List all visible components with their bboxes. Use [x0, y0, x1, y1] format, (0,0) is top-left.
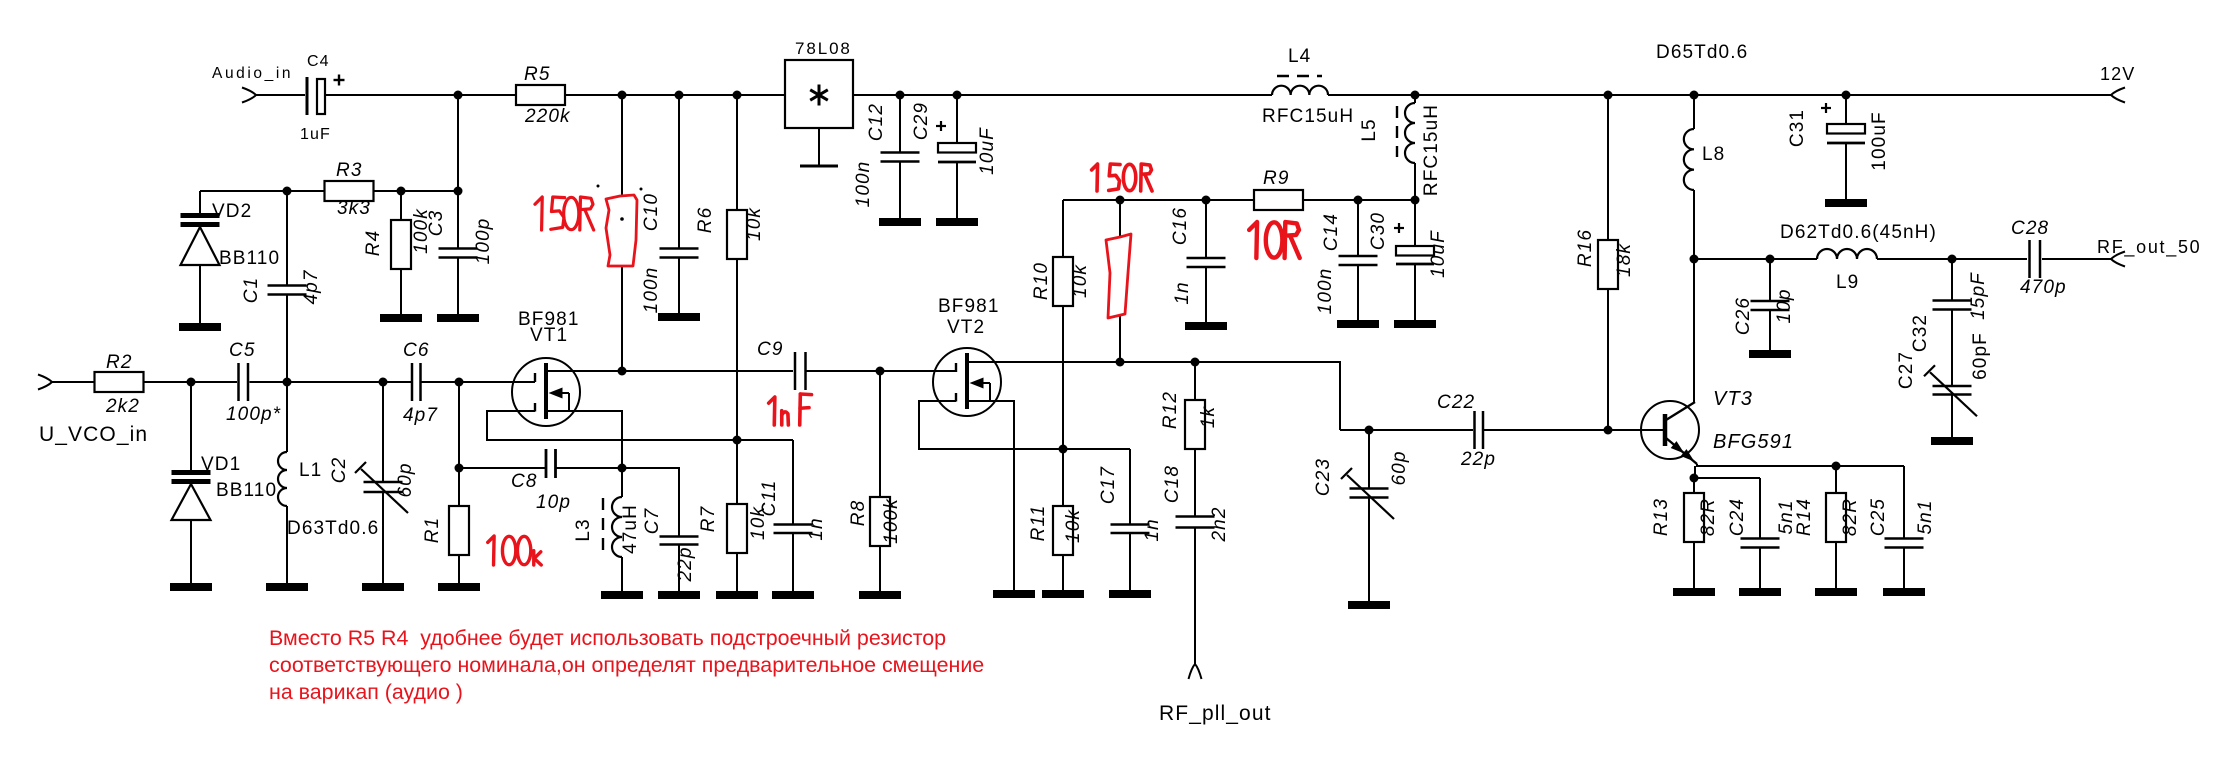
varactor diode VD2 BB110 [199, 191, 201, 213]
resistor R2 2k2 [95, 372, 144, 392]
red note 150R with drawn resistor near R10 [1092, 164, 1098, 191]
black speck inside red overlay 1 [620, 217, 624, 221]
svg-text:RFC15uH: RFC15uH [1262, 106, 1354, 127]
wire C9 to VT2 gate1 [806, 370, 957, 372]
svg-text:C18: C18 [1162, 465, 1183, 503]
svg-text:100uF: 100uF [1869, 111, 1890, 170]
svg-text:L3: L3 [573, 518, 594, 541]
transistor VT3 BFG591 [1641, 401, 1699, 459]
svg-text:100p: 100p [473, 218, 494, 265]
svg-text:BFG591: BFG591 [1713, 431, 1794, 453]
red drawn resistor overlay near R10 [1106, 234, 1131, 318]
junction VT2 drain line / 150R column [1116, 358, 1125, 367]
svg-text:L1: L1 [299, 460, 322, 481]
svg-text:1n: 1n [1142, 518, 1163, 541]
svg-text:82R: 82R [1698, 498, 1719, 536]
svg-text:C28: C28 [2011, 218, 2049, 239]
junction C8 line / L3 source [618, 464, 627, 473]
svg-text:Audio_in: Audio_in [212, 65, 293, 82]
resistor R16 18k [1607, 95, 1609, 240]
resistor R4 100k [400, 191, 402, 220]
ground C29 [936, 218, 978, 226]
trimmer capacitor C2 60p [382, 382, 384, 482]
svg-text:R8: R8 [848, 500, 869, 527]
svg-text:18k: 18k [1614, 243, 1635, 277]
inductor L8 [1693, 95, 1695, 129]
ground C11 [772, 591, 814, 599]
inductor L9 D62Td0.6(45nH) [1817, 249, 1877, 259]
svg-text:VD2: VD2 [212, 201, 252, 222]
junction C22 line / C23 [1365, 426, 1374, 435]
capacitor C14 100n [1357, 200, 1359, 256]
svg-text:1k: 1k [1198, 405, 1219, 428]
varactor diode VD1 BB110 [190, 382, 192, 470]
capacitor C18 2n2 [1194, 449, 1196, 517]
junction top rail / R16 [1604, 91, 1613, 100]
Audio_in port arrow [242, 88, 256, 103]
capacitor C9 coupling [794, 352, 797, 390]
svg-text:VT1: VT1 [530, 325, 568, 346]
svg-text:C12: C12 [866, 103, 887, 141]
junction R3 line / R4 [397, 187, 406, 196]
svg-text:1n: 1n [806, 517, 827, 540]
svg-text:1uF: 1uF [300, 126, 331, 143]
svg-text:D65Td0.6: D65Td0.6 [1656, 42, 1748, 63]
VT3 emitter with double arrows [1666, 438, 1697, 464]
svg-text:C6: C6 [403, 340, 430, 361]
asterisk mark in 78L08 [818, 85, 821, 106]
VT1 gate1 lead wire [459, 381, 535, 383]
red note 1nF under C9 [769, 397, 775, 425]
svg-text:L8: L8 [1702, 144, 1725, 165]
junction VCO line / L1 [283, 378, 292, 387]
wire R3 bias line [200, 190, 458, 192]
junction emitter line / R14 [1832, 462, 1841, 471]
svg-text:100p*: 100p* [226, 404, 281, 425]
voltage regulator U1 78L08 [785, 60, 853, 128]
trimmer capacitor C23 60p [1368, 430, 1370, 489]
svg-text:C29: C29 [911, 102, 932, 140]
junction top rail / C29 [953, 91, 962, 100]
junction R9 line / C30 L5 [1411, 196, 1420, 205]
junction emitter line / R13 [1690, 474, 1699, 483]
junction gate2 line / R6 R7 [733, 436, 742, 445]
svg-text:VD1: VD1 [201, 454, 241, 475]
svg-text:на варикап (аудио ): на варикап (аудио ) [269, 680, 463, 704]
resistor R13 82R [1693, 478, 1695, 493]
svg-text:220k: 220k [524, 106, 571, 127]
VT2 source lead to ground [967, 401, 1014, 590]
svg-text:100n: 100n [641, 267, 662, 314]
ground C25 [1883, 588, 1925, 596]
U_VCO_in port arrow [38, 375, 52, 390]
junction top rail / R6 [733, 91, 742, 100]
capacitor C3 100p [457, 95, 459, 249]
svg-text:4p7: 4p7 [301, 269, 322, 304]
ground C26 [1749, 350, 1791, 358]
svg-text:2k2: 2k2 [105, 396, 140, 417]
red drawn resistor overlay near VT1 drain [606, 195, 637, 266]
wire from 150R node down to VT2 drain line [1119, 200, 1121, 362]
junction top rail / L8 [1690, 91, 1699, 100]
svg-text:C22: C22 [1437, 392, 1475, 413]
VT1 drain lead wire to C9 [546, 370, 793, 372]
capacitor C7 22p [622, 468, 679, 537]
capacitor C1 4p7 [286, 191, 288, 286]
junction top rail / C31 [1842, 91, 1851, 100]
svg-text:C25: C25 [1868, 498, 1889, 536]
svg-text:D62Td0.6(45nH): D62Td0.6(45nH) [1780, 222, 1937, 243]
junction R9 line / C14 [1354, 196, 1363, 205]
svg-text:R11: R11 [1028, 505, 1049, 542]
ground stub of 78L08 [818, 128, 820, 166]
svg-text:BB110: BB110 [216, 480, 277, 501]
svg-text:C7: C7 [642, 507, 663, 534]
VT2 gate2 U wire [919, 401, 1130, 449]
svg-text:82R: 82R [1840, 498, 1861, 536]
svg-text:D63Td0.6: D63Td0.6 [287, 518, 379, 539]
junction output row / C32 [1948, 255, 1957, 264]
svg-text:L9: L9 [1836, 272, 1859, 293]
ground R14 [1815, 588, 1857, 596]
ground C2 [362, 583, 404, 591]
svg-text:R10: R10 [1031, 262, 1052, 300]
capacitor C22 22p [1473, 411, 1476, 449]
svg-text:C2: C2 [329, 457, 350, 484]
dual-gate MOSFET VT1 BF981 [512, 358, 580, 426]
svg-text:100k: 100k [881, 498, 902, 544]
svg-text:10p: 10p [536, 492, 571, 513]
svg-text:60p: 60p [1389, 450, 1410, 485]
svg-text:22p: 22p [1460, 449, 1496, 470]
svg-text:L5: L5 [1359, 118, 1380, 141]
ground R11 [1042, 590, 1084, 598]
svg-text:78L08: 78L08 [795, 39, 852, 58]
svg-text:10p: 10p [1774, 288, 1795, 323]
red note 100k value for R1 [488, 536, 494, 565]
svg-text:C26: C26 [1733, 297, 1754, 335]
svg-text:R16: R16 [1575, 229, 1596, 267]
junction top rail / C3 column [454, 91, 463, 100]
svg-text:C14: C14 [1321, 213, 1342, 251]
svg-text:C27: C27 [1896, 351, 1917, 389]
ground C16 [1185, 322, 1227, 330]
junction R9 line / C16 [1202, 196, 1211, 205]
svg-text:60pF: 60pF [1970, 332, 1991, 380]
junction output row / C26 [1766, 255, 1775, 264]
wire gate1 column down to C8 line [458, 382, 460, 468]
VT1 gate2 U wire to bias line [487, 411, 793, 440]
svg-text:C8: C8 [511, 471, 538, 492]
resistor R10 10k [1062, 200, 1064, 257]
capacitor C32 15pF [1951, 259, 1953, 301]
svg-text:R5: R5 [524, 64, 551, 85]
svg-text:22p: 22p [675, 546, 696, 582]
capacitor C24 5n1 [1759, 478, 1761, 539]
resistor R6 10k [736, 95, 738, 210]
junction gate1 line / R8 [876, 367, 885, 376]
ground C30 [1394, 320, 1436, 328]
VT1 source lead wire down to C8 node [546, 411, 622, 468]
inductor L5 RFC15uH [1414, 95, 1416, 103]
junction R3 line / C1 [283, 187, 292, 196]
ground R1 [438, 583, 480, 591]
svg-text:10k: 10k [1063, 509, 1084, 543]
wire C22 to VT3 base [1483, 429, 1663, 431]
red note 10R under R9 [1249, 222, 1257, 258]
svg-text:C5: C5 [229, 340, 256, 361]
svg-text:12V: 12V [2100, 64, 2135, 84]
junction R3 line / C3 [454, 187, 463, 196]
svg-text:L4: L4 [1288, 46, 1311, 67]
ground VD2 [179, 323, 221, 331]
svg-text:VT3: VT3 [1713, 388, 1753, 410]
svg-text:C16: C16 [1170, 207, 1191, 245]
ground R7 [716, 591, 758, 599]
svg-text:R9: R9 [1263, 168, 1290, 189]
VT3 emitter node wires [1697, 464, 1904, 466]
svg-text:60p: 60p [395, 462, 416, 497]
svg-text:R6: R6 [695, 207, 716, 234]
RF_pll_out port arrow [1189, 664, 1202, 679]
capacitor C28 470p [2028, 240, 2031, 278]
ground C7 [658, 591, 700, 599]
junction VCO line / R1 gate1 [455, 378, 464, 387]
svg-text:R13: R13 [1651, 498, 1672, 536]
svg-text:C24: C24 [1727, 498, 1748, 536]
svg-text:Вместо R5 R4 удобнее будет ис: Вместо R5 R4 удобнее будет использовать … [269, 626, 946, 650]
svg-text:C31: C31 [1787, 109, 1808, 147]
junction top rail / C10 [675, 91, 684, 100]
svg-text:соответствующего номинала,он о: соответствующего номинала,он определят п… [269, 653, 984, 677]
capacitor C10 100n [678, 95, 680, 249]
ground R4 [380, 314, 422, 322]
dual-gate MOSFET VT2 BF981 [933, 348, 1001, 416]
wire gate2 bias line R9 row [1063, 199, 1254, 201]
svg-text:C11: C11 [759, 480, 780, 517]
ground VT2 source [993, 590, 1035, 598]
wire VT2 drain to C22 row [1340, 429, 1473, 431]
svg-text:100n: 100n [1315, 268, 1336, 315]
svg-text:C10: C10 [641, 193, 662, 231]
capacitor C29 electrolytic 10uF [956, 95, 958, 143]
svg-text:RF_out_50: RF_out_50 [2097, 237, 2201, 258]
svg-text:R2: R2 [106, 352, 133, 373]
capacitor C11 1n [792, 440, 794, 525]
VT3 collector wire from L8 node [1693, 259, 1695, 402]
svg-text:C23: C23 [1313, 458, 1334, 496]
resistor R5 220k [516, 85, 565, 105]
junction R9 line / 150R column [1116, 196, 1125, 205]
svg-text:10k: 10k [1070, 264, 1091, 298]
resistor R14 82R [1835, 466, 1837, 493]
resistor R1 (100k) [458, 468, 460, 506]
resistor R3 3k3 [325, 181, 374, 201]
12V port arrow [2111, 88, 2125, 103]
junction top rail / VT1 drain column [618, 91, 627, 100]
RF_out_50 port arrow [2111, 252, 2125, 267]
capacitor C12 100n [899, 95, 901, 153]
svg-text:2n2: 2n2 [1209, 506, 1230, 542]
svg-text:1n: 1n [1172, 281, 1193, 304]
svg-text:C3: C3 [426, 210, 447, 237]
resistor R8 100k [879, 371, 881, 497]
ground C23 [1348, 601, 1390, 609]
capacitor C6 4p7 [411, 363, 414, 401]
red note 150R with drawn resistor near VT1 drain [535, 197, 542, 230]
ground C31 [1825, 199, 1867, 207]
svg-text:C17: C17 [1098, 466, 1119, 504]
capacitor C30 electrolytic 10uF [1414, 200, 1416, 246]
junction output row / L8 collector [1690, 255, 1699, 264]
resistor R11 10k [1062, 449, 1064, 506]
junction drain line / rail column [618, 367, 627, 376]
svg-text:RFC15uH: RFC15uH [1421, 104, 1442, 196]
resistor R9 [1254, 190, 1303, 210]
capacitor C31 electrolytic 100uF [1845, 95, 1847, 124]
capacitor C25 5n1 [1903, 466, 1905, 539]
ground VD1 [170, 583, 212, 591]
svg-text:R14: R14 [1794, 498, 1815, 536]
svg-text:5n1: 5n1 [1915, 499, 1936, 534]
ground C12 [879, 218, 921, 226]
ground C24 [1739, 588, 1781, 596]
ground L1 [266, 583, 308, 591]
svg-text:C4: C4 [307, 53, 330, 70]
capacitor C16 1n [1205, 200, 1207, 258]
junction C8 line / R1 [455, 464, 464, 473]
junction VT2 drain line / R12 [1191, 358, 1200, 367]
ground L3 [601, 591, 643, 599]
junction top rail / L5 [1411, 91, 1420, 100]
VT2 drain line wire [969, 362, 1340, 430]
svg-text:R12: R12 [1160, 391, 1181, 429]
svg-text:R1: R1 [422, 517, 443, 544]
junction top rail / C12 [896, 91, 905, 100]
inductor L4 RFC15uH [1272, 86, 1328, 95]
ground C14 [1337, 320, 1379, 328]
wire output matching row [1694, 258, 1817, 260]
svg-text:470p: 470p [2020, 277, 2067, 298]
svg-text:10uF: 10uF [977, 127, 998, 175]
resistor R12 1k [1194, 362, 1196, 400]
svg-text:BB110: BB110 [219, 248, 280, 269]
capacitor C26 10p [1769, 259, 1771, 301]
ground C27 [1931, 437, 1973, 445]
svg-text:R3: R3 [336, 160, 363, 181]
top power rail wire [256, 94, 305, 96]
capacitor C4 electrolytic 1uF [306, 77, 309, 115]
svg-text:47uH: 47uH [620, 504, 641, 554]
svg-text:100n: 100n [853, 161, 874, 208]
junction VCO line / C2 [379, 378, 388, 387]
junction VCO line / VD1 [187, 378, 196, 387]
svg-text:15pF: 15pF [1968, 272, 1989, 320]
ground R13 [1673, 588, 1715, 596]
svg-text:RF_pll_out: RF_pll_out [1159, 702, 1272, 725]
capacitor C17 1n [1129, 449, 1131, 525]
svg-text:R7: R7 [698, 505, 719, 532]
ground C10 [658, 313, 700, 321]
ground R8 [859, 591, 901, 599]
svg-text:U_VCO_in: U_VCO_in [39, 423, 148, 446]
svg-text:BF981: BF981 [938, 296, 999, 317]
capacitor C8 10p [459, 467, 546, 469]
wire drain column to rail [621, 95, 623, 371]
inductor L3 47uH [621, 468, 623, 497]
main VCO input line [52, 381, 95, 383]
trimmer capacitor C27 60pF [1933, 385, 1972, 388]
svg-text:C9: C9 [757, 339, 784, 360]
ground C3 [437, 314, 479, 322]
junction gate2 line / R10 R11 [1059, 445, 1068, 454]
svg-text:C1: C1 [241, 277, 262, 304]
svg-text:10uF: 10uF [1428, 230, 1449, 278]
ground C17 [1109, 590, 1151, 598]
svg-text:VT2: VT2 [947, 317, 985, 338]
capacitor C5 100p* [237, 363, 240, 401]
svg-text:4p7: 4p7 [403, 405, 438, 426]
junction base line / R16 [1604, 426, 1613, 435]
svg-text:3k3: 3k3 [337, 198, 371, 219]
inductor L1 [286, 382, 288, 452]
svg-text:10k: 10k [744, 207, 765, 241]
svg-text:R4: R4 [363, 230, 384, 257]
svg-text:C30: C30 [1368, 212, 1389, 250]
resistor R7 10k [736, 440, 738, 504]
svg-text:C32: C32 [1910, 314, 1931, 352]
